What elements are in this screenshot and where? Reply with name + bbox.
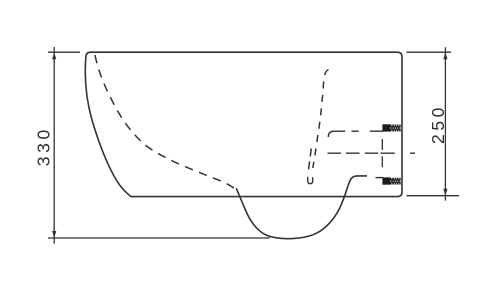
svg-text:250: 250 (428, 104, 448, 144)
svg-text:330: 330 (34, 126, 54, 166)
